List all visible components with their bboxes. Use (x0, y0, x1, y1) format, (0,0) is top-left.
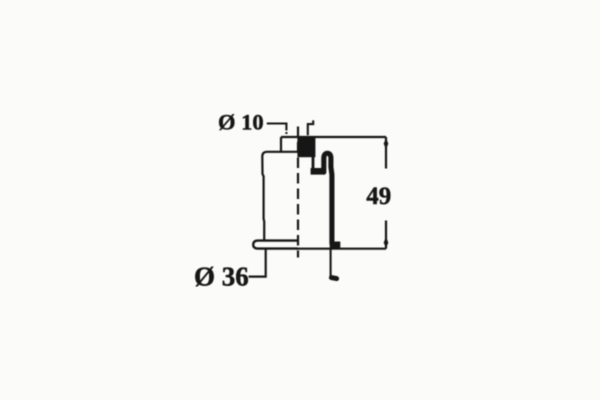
dimension line 49 (vertical, broken for text) (385, 137, 387, 169)
skirt bottom foot (solid) (330, 242, 341, 249)
leader end tick below foot (331, 278, 336, 279)
leader line for Ø10 right (308, 120, 313, 135)
bottom extension line / baseline (296, 248, 386, 250)
arrowhead top of 49 dimension (384, 138, 389, 150)
arrowhead bottom of 49 dimension (384, 237, 389, 249)
sectioned wall hook (S-bend) and outer skirt (324, 153, 332, 243)
inner groove right wall (thin vertical below block) (312, 157, 315, 169)
sectioned bottom bar of groove (311, 168, 325, 175)
svg-text:Ø 36: Ø 36 (194, 261, 249, 291)
centre axis (dashed) (297, 127, 299, 258)
flange outline (rounded left end) (253, 241, 298, 249)
body outline left (top edge + left edge with small jog) (262, 152, 297, 241)
neck left edge (280, 137, 282, 152)
sectioned top block (solid) (297, 136, 315, 157)
svg-text:49: 49 (366, 183, 391, 210)
leader line for Ø36 (249, 248, 266, 276)
top surface line / top extension line (281, 136, 386, 138)
leader below foot (330, 249, 332, 278)
svg-text:Ø 10: Ø 10 (218, 110, 264, 135)
leader line for Ø10 left (267, 124, 287, 131)
dotted tail of left Ø10 leader (285, 132, 287, 135)
